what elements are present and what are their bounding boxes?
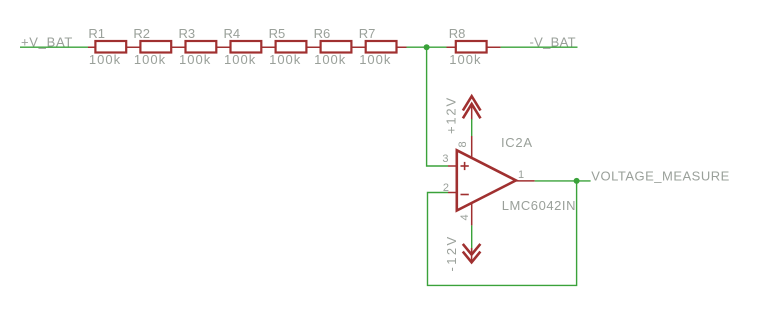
wire pin 4 to -12V — [471, 225, 473, 251]
svg-text:100k: 100k — [179, 52, 211, 67]
pin 4 stub — [471, 203, 473, 226]
svg-text:-12V: -12V — [444, 234, 459, 271]
svg-text:100k: 100k — [269, 52, 301, 67]
svg-text:R5: R5 — [269, 26, 286, 41]
node output junction dot — [574, 178, 580, 184]
supply -12V symbol — [444, 234, 480, 271]
wire net +V_BAT horizontal — [20, 46, 88, 48]
wire resistor chain pin line R1-R7 — [88, 46, 407, 48]
resistor R4 — [224, 26, 262, 67]
svg-text:100k: 100k — [89, 52, 121, 67]
svg-text:1: 1 — [518, 169, 524, 181]
op-amp IC2A triangle — [457, 150, 516, 210]
resistor R5 — [269, 26, 307, 67]
svg-text:R2: R2 — [133, 26, 150, 41]
svg-text:4: 4 — [459, 214, 471, 220]
wire R8 to -V_BAT — [501, 46, 578, 48]
svg-text:R3: R3 — [179, 26, 196, 41]
svg-text:R4: R4 — [224, 26, 241, 41]
supply +12V symbol — [444, 96, 481, 134]
resistor R3 — [179, 26, 217, 67]
svg-text:R7: R7 — [359, 26, 376, 41]
op-amp plus input mark — [461, 162, 469, 170]
resistor R6 — [314, 26, 352, 67]
svg-text:-V_BAT: -V_BAT — [530, 35, 576, 50]
resistor R8 — [449, 26, 487, 67]
svg-text:8: 8 — [457, 141, 469, 147]
wire +12V to pin 8 — [471, 119, 473, 136]
svg-text:+V_BAT: +V_BAT — [21, 35, 73, 50]
pin 1 output stub — [516, 180, 535, 182]
wire feedback output to pin 2 — [428, 181, 577, 286]
svg-text:IC2A: IC2A — [501, 135, 533, 150]
svg-text:3: 3 — [442, 153, 448, 165]
wire junction down to pin 3 — [427, 47, 448, 166]
svg-text:VOLTAGE_MEASURE: VOLTAGE_MEASURE — [591, 168, 730, 183]
svg-text:+12V: +12V — [444, 96, 459, 134]
wire R8 pins — [447, 46, 501, 48]
pin 3 stub — [448, 165, 458, 167]
svg-text:R8: R8 — [449, 26, 466, 41]
junction node dot — [424, 44, 430, 50]
svg-text:100k: 100k — [134, 52, 166, 67]
resistor R7 — [359, 26, 397, 67]
resistor R1 — [88, 26, 126, 67]
op-amp minus input mark — [461, 194, 469, 196]
svg-text:100k: 100k — [359, 52, 391, 67]
wire R7 to junction — [407, 46, 447, 48]
wire output to node — [535, 180, 591, 182]
svg-text:100k: 100k — [449, 52, 481, 67]
svg-text:R1: R1 — [88, 26, 105, 41]
svg-text:100k: 100k — [314, 52, 346, 67]
svg-text:LMC6042IN: LMC6042IN — [502, 198, 576, 213]
pin 8 stub — [471, 136, 473, 159]
pin 2 stub — [448, 192, 458, 194]
svg-text:R6: R6 — [314, 26, 331, 41]
svg-text:100k: 100k — [224, 52, 256, 67]
resistor R2 — [133, 26, 171, 67]
